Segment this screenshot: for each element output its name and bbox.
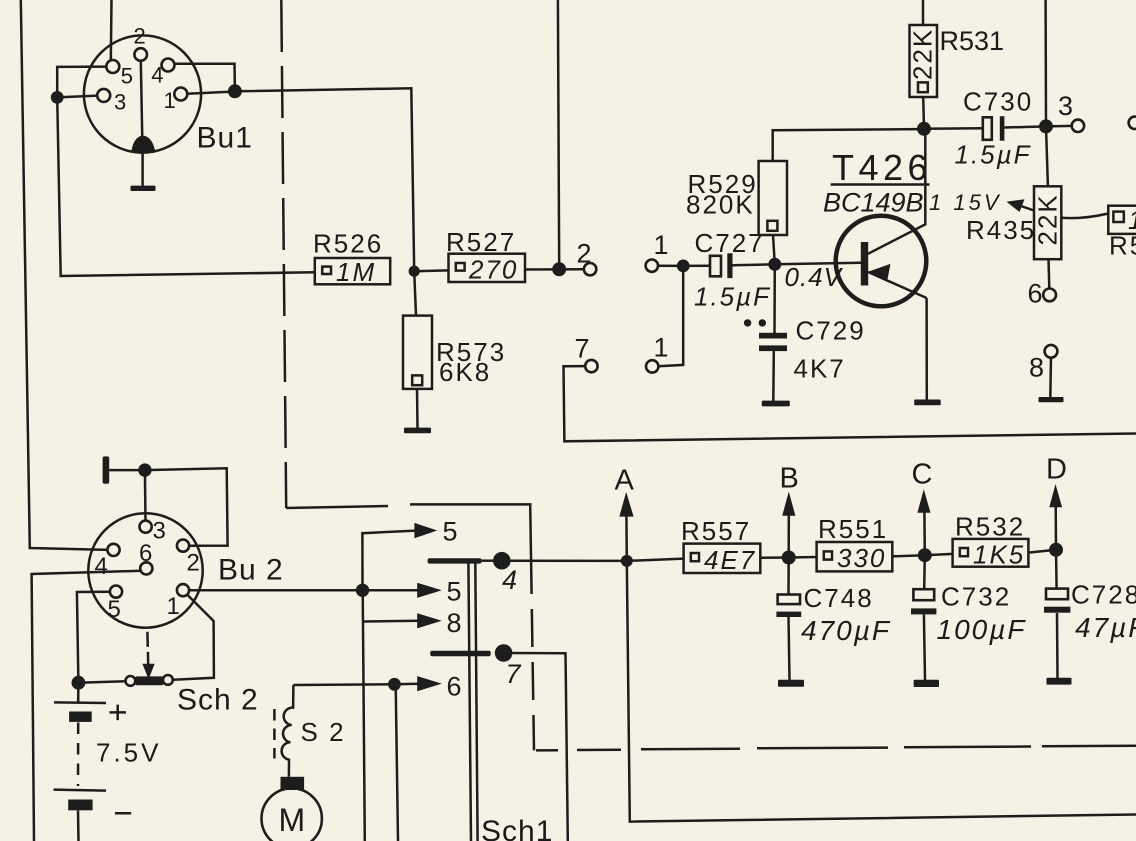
dashed mechanism boundary upper [286,506,388,508]
svg-text:22K: 22K [908,28,938,80]
arrow D [1054,505,1057,550]
node junction right of Bu1 [228,84,242,98]
ground C748 [778,680,804,687]
svg-text:5: 5 [443,517,458,547]
wire node down to terminal 1 (lower) [658,266,683,366]
resistor R557 [684,544,761,573]
capacitor C730 [983,117,992,140]
svg-text:R557: R557 [681,516,751,546]
wire shield pin to ground [141,152,144,186]
wire Bu2 pin 5 left and down to battery [77,592,110,683]
wire Bu1 pin1 to node [187,92,235,94]
battery 7.5V cell 1 [54,701,106,704]
wire Bu1 pin4 right and down [175,64,235,91]
switch Sch2 actuation dashes [146,632,149,664]
wire Bu2 pin 1 down to switch [173,595,214,680]
svg-text:4: 4 [95,553,108,580]
svg-text:B: B [780,463,799,495]
resistor R551 [817,542,893,571]
wire terminal 1 to node [658,264,683,267]
dashed shield boundary vertical left [281,0,286,508]
svg-text:A: A [615,465,635,497]
node A junction [621,555,633,567]
wire node tap down to R573 [414,271,416,315]
wire base [775,263,861,265]
svg-text:R551: R551 [818,514,888,544]
svg-text:Bu1: Bu1 [197,122,253,155]
svg-text:8: 8 [1029,353,1044,383]
wire R529 bottom to base node [773,235,775,264]
wire node 7 right and down [504,653,568,841]
ground terminal 8 [1039,397,1064,402]
svg-text:C748: C748 [804,583,874,613]
terminal 1 (input top) [646,260,658,272]
terminal 1 (lower) [646,360,658,372]
svg-text:1: 1 [164,88,176,113]
transistor collector lead [868,133,925,254]
plug terminal bar above Bu2 [103,456,110,483]
Bu2 pin 6 [140,562,152,574]
svg-text:4E7: 4E7 [704,545,756,575]
wire R531 top feed [922,0,925,25]
svg-text:6: 6 [447,672,462,702]
Bu1 pin 4 [162,59,175,72]
svg-text:M: M [279,802,306,838]
svg-text:C727: C727 [695,228,765,258]
wire node to R527 [414,269,448,272]
resistor R531 (vertical) [910,25,938,97]
node row junction (pin1) [356,584,369,597]
transistor emitter lead with arrow [868,272,926,298]
svg-text:Bu 2: Bu 2 [218,554,284,587]
Bu1 connector circle [84,35,201,152]
svg-text:R435: R435 [966,215,1036,245]
node 4 (large) [493,552,511,570]
resistor R5.. (edge, partial) [1108,206,1136,234]
node output junction [1039,119,1053,133]
svg-text:4K7: 4K7 [794,354,846,384]
wire Bu1 pin5 to left junction [57,67,106,98]
svg-text:2: 2 [187,550,200,577]
Bu2 pin 5 [110,586,122,598]
switch Sch2 contacts [125,676,135,686]
resistor R532 [953,539,1029,567]
node B junction [782,551,796,565]
svg-text:4: 4 [502,565,517,595]
motor M [262,788,322,841]
wire plug bar to node [109,469,145,472]
terminal 6 [1043,289,1056,302]
wire collector node to C730 [924,127,983,130]
terminal 8 [1045,345,1058,358]
svg-text:Sch1: Sch1 [481,815,553,841]
node R526/R527 junction [409,266,420,277]
Bu2 pin 1 [177,584,189,596]
transistor base bar [861,242,868,286]
arrow A [625,514,628,561]
switch Sch2 bar [135,676,163,685]
vertical feed from top to terminal 2 node [558,0,559,269]
svg-text:C729: C729 [796,316,866,346]
svg-text:470µF: 470µF [801,615,891,646]
row arrow 5 (lower) [363,589,420,592]
svg-text:2: 2 [577,239,592,269]
wire R435 to edge resistor [1061,214,1108,219]
svg-text:22K: 22K [1033,193,1063,245]
wire node to R526/R527 tap [235,88,414,271]
svg-text:7: 7 [506,659,522,689]
svg-text:6: 6 [1028,279,1043,309]
terminal 2 [584,263,596,275]
terminal 3 [1072,120,1084,132]
Bu2 pin 4 [107,544,119,556]
node input junction [677,260,690,273]
wire R435 bottom to terminal 6 [1047,259,1050,288]
svg-text:R531: R531 [940,26,1005,56]
row arrow 8 [364,620,420,623]
node battery junction [72,676,86,690]
contact bar node 4 [428,558,482,563]
wire terminal 7 down to long rail [564,366,1136,441]
svg-text:6K8: 6K8 [439,357,491,387]
resistor R527 [449,254,526,282]
svg-text:S 2: S 2 [301,717,346,747]
wire battery node to switch [78,681,125,683]
minus sign [115,812,131,815]
wire top feed to Bu1 pin 5 [110,0,113,61]
wire R551 to node C [892,555,925,556]
ground R573 [404,428,431,434]
capacitor C729 [759,333,787,339]
svg-text:4: 4 [151,63,163,88]
switch Sch2 actuator arrow [142,664,154,679]
capacitor C727 [710,256,721,276]
capacitor C729 polarity dots [744,319,751,326]
svg-text:6: 6 [139,540,152,567]
potentiometer R435 (vertical) [1034,186,1061,259]
wire base node down to C729 [773,264,776,333]
svg-text:R526: R526 [313,229,383,259]
wire Bu2 pin 1 right to row node [189,589,363,592]
node junction Bu1 left [51,91,64,104]
capacitor C732 [923,555,926,589]
node collector junction [917,122,931,136]
ground emitter [914,400,941,406]
solenoid S2 coil [282,685,294,777]
wire left border vertical to Bu2 pin 4 [21,0,108,550]
svg-text:R532: R532 [955,512,1025,542]
wire C727 to base node [733,264,775,265]
dashed mechanism boundary bottom [536,749,558,752]
wire node right and down to Bu2 pin 2 [145,468,228,545]
wire R532 to node D [1028,550,1056,553]
svg-text:3: 3 [1058,91,1073,121]
svg-text:8: 8 [447,608,462,638]
wire R529 top to collector node [773,129,918,161]
svg-text:C732: C732 [941,582,1011,612]
svg-text:C730: C730 [963,87,1033,117]
wire node B to R551 [789,556,817,559]
svg-text:D: D [1046,454,1067,486]
svg-text:BC149B: BC149B [823,188,924,218]
wire R573 to ground [416,389,419,428]
svg-text:C728: C728 [1071,580,1136,610]
row arrow 6 [388,678,401,691]
svg-text:7: 7 [575,334,590,364]
svg-text:1 15V: 1 15V [929,190,1002,215]
contact bar node 7 [430,651,491,657]
wire R557 to node B [760,556,788,559]
svg-text:5: 5 [121,64,133,89]
resistor R573 (vertical) [403,316,432,389]
capacitor C748 [787,558,790,595]
svg-text:Sch 2: Sch 2 [177,684,259,717]
svg-text:5: 5 [108,596,121,623]
wire junction to Bu1 pin3 [57,96,97,98]
battery middle dashed link [77,723,80,787]
svg-text:47µF: 47µF [1075,612,1136,643]
Bu2 pin 2 [177,540,189,552]
Bu2 pin 3 [140,521,152,533]
solenoid S2 dashed actuation [273,709,276,759]
wire battery to bottom edge [77,810,80,841]
svg-text:270: 270 [468,255,518,285]
capacitor C728 [1055,550,1058,589]
node terminal 2 junction [552,262,566,276]
arrow C [923,511,926,556]
resistor R529 (vertical) [759,161,787,235]
svg-text:100µF: 100µF [937,614,1027,645]
Bu1 pin 3 [97,89,110,102]
svg-text:1: 1 [654,333,669,363]
plus sign [110,711,127,714]
wire node 4 to rail A [502,559,621,562]
ground C728 [1047,678,1072,685]
wire terminal 8 to ground [1049,358,1052,398]
Bu2 connector circle [88,513,202,627]
wire C732 to ground [924,615,925,681]
wire node to C727 [683,265,710,268]
wire output node to terminal 3 [1046,125,1072,128]
wire R527 to terminal 2 [525,268,584,271]
ground Bu1 [131,186,156,191]
wire C728 to ground [1056,613,1059,678]
wire row node down [363,590,365,841]
wire junction down to R526 row [57,97,315,276]
wire node to battery [77,683,80,703]
svg-text:3: 3 [114,90,126,115]
Bu1 shield pin (filled) [131,136,155,153]
wire R531 bottom to collector node [922,97,925,129]
Bu1 pin 5 [106,60,119,73]
svg-text:R527: R527 [446,227,516,257]
svg-text:1.5µF: 1.5µF [694,282,771,312]
Bu1 pin 2 [134,48,147,61]
svg-text:1.5µF: 1.5µF [955,140,1032,170]
R435 wiper arrow [1018,205,1034,211]
battery 7.5V cell 2 [54,790,107,791]
svg-text:1: 1 [654,230,669,260]
svg-text:1: 1 [167,593,180,620]
ground C732 [914,680,939,687]
motor brush [281,777,305,790]
terminal (edge, partial) [1129,117,1136,129]
switch Sch1 double guide lines [468,563,471,841]
transistor T426 circle [836,216,927,307]
svg-text:1K5: 1K5 [973,540,1025,570]
svg-text:7.5V: 7.5V [96,738,162,768]
svg-text:C: C [912,459,933,491]
wire C730 to output node [1004,126,1046,127]
wire row 6 node down [396,684,398,841]
wire node A down to bottom rail [627,561,1136,822]
resistor R526 [315,258,390,284]
svg-text:5: 5 [447,577,462,607]
arrow B [787,514,790,558]
node above Bu2 [138,463,151,476]
svg-text:T426: T426 [832,147,932,188]
wire C729 to ground [772,351,775,401]
ground C729 [762,401,790,407]
Bu1 pin 1 [174,88,187,101]
node C junction [918,548,932,562]
svg-text:2: 2 [134,24,146,49]
row arrow 5 (upper) [362,531,415,584]
svg-text:R5: R5 [1109,231,1136,261]
svg-text:1M: 1M [336,257,376,287]
Bu1 pin2 stem to shield pin [141,61,143,140]
terminal 7 (mid) [585,360,597,372]
svg-text:330: 330 [837,543,886,573]
node base junction [768,258,781,271]
svg-text:3: 3 [153,518,166,545]
svg-text:820K: 820K [686,190,755,220]
node 7 (large) [495,644,513,662]
wire node A to R557 [627,559,684,561]
wire node down to Bu2 pin 3 [144,470,147,521]
wire node C to R532 [925,554,953,555]
svg-text:0.4V: 0.4V [785,262,844,292]
node D junction [1049,543,1063,557]
wire S2 top to row 6 node [293,683,394,686]
wire Bu2 pin 6 left and down [32,571,141,841]
vertical feed top to R435 [1046,0,1048,186]
wire C748 to ground [789,617,790,680]
